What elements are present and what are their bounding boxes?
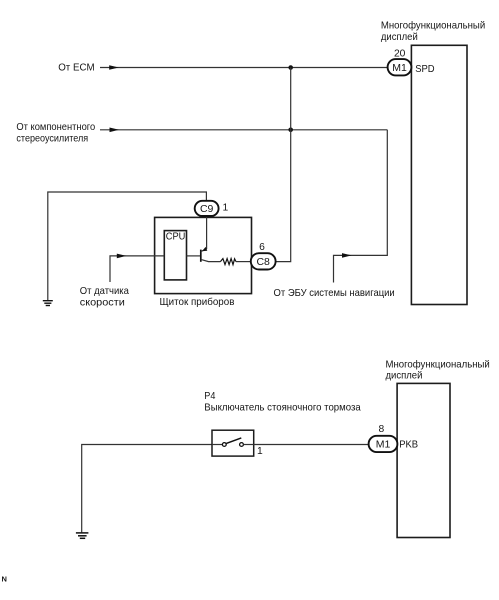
arrow on ECM wire (109, 65, 119, 70)
arrow on speed sensor wire (117, 254, 127, 259)
parking brake switch P4 box (212, 430, 254, 456)
wire switch to display M1 pin 8 (254, 444, 369, 446)
wire vertical from junctions down to C8 lead (276, 68, 291, 262)
connector C8 pin 6 oval (251, 253, 276, 269)
svg-text:P4: P4 (204, 391, 215, 402)
transistor arrow (emitter arrow pointing to base bar) (202, 247, 207, 251)
multifunction display box lower (397, 383, 450, 537)
wire ECM to display M1 pin 20 (SPD net) (100, 67, 388, 69)
resistor in instrument cluster (220, 259, 236, 265)
svg-text:От ЭБУ системы навигации: От ЭБУ системы навигации (274, 288, 395, 299)
svg-text:C9: C9 (200, 203, 214, 215)
svg-text:N: N (2, 574, 7, 583)
connector C9 pin 1 oval (195, 201, 219, 216)
switch contact left (222, 443, 226, 447)
svg-text:C8: C8 (256, 256, 270, 268)
svg-text:От датчика: От датчика (80, 286, 129, 297)
wire resistor to connector C8 (236, 261, 251, 263)
svg-text:CPU: CPU (166, 232, 186, 243)
svg-text:От ECM: От ECM (58, 62, 95, 73)
wire ground to C9 pin 1 (48, 192, 207, 301)
svg-text:20: 20 (394, 48, 406, 59)
wire inside switch right (244, 444, 254, 446)
svg-text:1: 1 (257, 446, 263, 457)
arrow on navigation ECU wire (342, 253, 352, 258)
transistor emitter lead (201, 259, 221, 261)
instrument cluster box Щиток приборов (155, 217, 252, 293)
svg-text:SPD: SPD (415, 63, 435, 75)
transistor collector lead to C9 (201, 216, 207, 252)
multifunction display box upper (411, 45, 467, 304)
ground symbol lower (76, 533, 89, 538)
svg-text:От компонентного: От компонентного (16, 122, 95, 133)
svg-text:дисплей: дисплей (381, 32, 418, 43)
svg-text:6: 6 (259, 242, 265, 253)
svg-text:Щиток приборов: Щиток приборов (160, 296, 235, 308)
svg-text:8: 8 (379, 424, 385, 435)
transistor Q (output driver) base bar (200, 250, 202, 262)
wire CPU to transistor base (187, 255, 201, 257)
svg-text:M1: M1 (392, 62, 407, 74)
svg-text:скорости: скорости (80, 298, 125, 309)
arrow on stereo amp wire (110, 128, 120, 133)
wire ground to parking brake switch (82, 445, 212, 533)
switch contact right (240, 443, 244, 447)
wire speed sensor to CPU (110, 256, 164, 282)
junction dot SPD node 2 (288, 128, 293, 133)
svg-text:Многофункциональный: Многофункциональный (381, 20, 486, 32)
svg-text:Выключатель стояночного тормоз: Выключатель стояночного тормоза (204, 402, 361, 413)
svg-text:Многофункциональный: Многофункциональный (386, 358, 491, 370)
wire inside switch left (212, 444, 222, 446)
connector M1 pin 20 oval (388, 59, 412, 75)
svg-text:PKB: PKB (399, 439, 418, 451)
svg-text:стереоусилителя: стереоусилителя (16, 134, 88, 145)
wire component stereo amplifier to node (100, 129, 387, 131)
junction dot SPD node 1 (288, 65, 293, 70)
svg-text:M1: M1 (376, 439, 391, 451)
svg-text:дисплей: дисплей (386, 371, 423, 382)
wire vertical from stereo wire corner down to navigation wire (334, 130, 388, 283)
CPU box (164, 231, 186, 280)
switch lever (226, 438, 241, 444)
svg-text:1: 1 (223, 202, 229, 213)
ground symbol upper (43, 301, 53, 306)
connector M1 pin 8 oval (369, 436, 398, 452)
